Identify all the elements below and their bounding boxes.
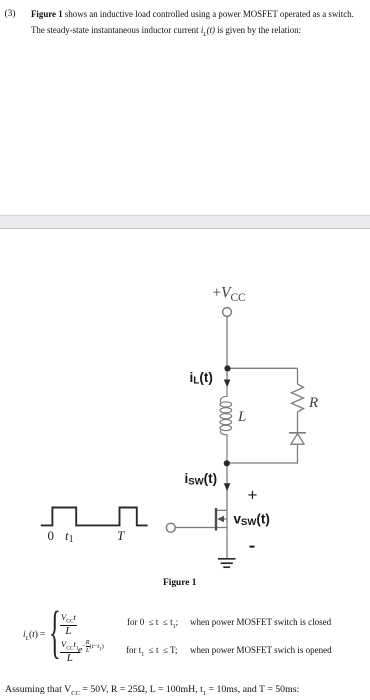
- when column: [190, 617, 331, 627]
- wire right branch to resistor: [297, 368, 299, 384]
- resistor R zigzag: [292, 384, 304, 412]
- fraction 1: Vcc t / L: [60, 612, 77, 636]
- fraction 2: Vcc t1 / L e^...: [60, 639, 80, 663]
- inductor L coil: [220, 387, 227, 402]
- MOSFET Q1 body line: [221, 518, 227, 520]
- node B junction dot: [224, 460, 230, 466]
- problem statement line 1: [31, 7, 366, 43]
- wire Vcc to node A: [226, 317, 228, 369]
- svg-text:+: +: [248, 486, 258, 505]
- wire resistor to diode: [297, 412, 299, 432]
- svg-text:vSW(t): vSW(t): [234, 512, 270, 529]
- MOSFET Q1 body arrow: [217, 516, 224, 523]
- gray divider band: [0, 215, 370, 229]
- wire diode to bottom rail: [227, 445, 298, 463]
- gate terminal circle: [166, 523, 175, 532]
- diode cathode bar: [289, 432, 306, 434]
- MOSFET Q1 channel bar: [215, 508, 217, 531]
- node A junction dot: [224, 365, 230, 371]
- minus sign: [250, 546, 255, 548]
- wire node A to arrow: [226, 368, 228, 380]
- conditions column: [127, 617, 178, 630]
- MOSFET Q1 drain tick: [216, 509, 227, 511]
- iL current arrow: [224, 380, 231, 388]
- square wave gate signal: [41, 508, 148, 526]
- bottom assumption line: [5, 684, 299, 697]
- wire node A to right branch top: [227, 367, 298, 369]
- Vcc terminal circle: [223, 308, 232, 317]
- ground: [218, 558, 236, 560]
- Figure 1 caption: [163, 578, 196, 588]
- svg-text:R: R: [308, 395, 318, 411]
- big brace: [49, 598, 61, 665]
- diode triangle: [291, 434, 304, 445]
- svg-text:iL(t): iL(t): [190, 370, 213, 387]
- svg-text:0: 0: [48, 528, 55, 543]
- problem number (3): [5, 9, 16, 19]
- formula block: [0, 603, 370, 663]
- svg-text:+VCC: +VCC: [213, 285, 246, 304]
- gate wire: [176, 527, 227, 529]
- i_L(t)=: [23, 630, 45, 642]
- square wave axis labels 0 t1 T: [48, 528, 126, 545]
- svg-text:L: L: [237, 409, 246, 425]
- isw current arrow: [224, 483, 231, 491]
- svg-text:iSW(t): iSW(t): [185, 471, 218, 488]
- svg-text:T: T: [117, 528, 125, 543]
- drain wire (node B down to ground): [226, 463, 228, 559]
- svg-text:t1: t1: [65, 528, 74, 545]
